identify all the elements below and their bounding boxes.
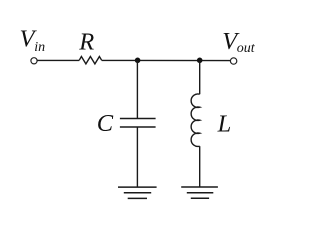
node junction at R/C — [135, 58, 141, 64]
svg-text:L: L — [217, 111, 232, 138]
svg-text:in: in — [34, 40, 45, 55]
wire — [102, 59, 231, 61]
terminal Vout — [230, 58, 236, 64]
label Vin — [20, 26, 46, 55]
wire — [199, 146, 201, 187]
svg-text:C: C — [97, 110, 114, 137]
ground under C — [118, 187, 157, 198]
capacitor C — [120, 119, 156, 128]
svg-text:out: out — [237, 41, 256, 56]
wire — [199, 60, 201, 94]
wire — [136, 127, 138, 187]
node junction at L — [197, 58, 203, 64]
inductor L — [191, 94, 200, 147]
terminal Vin — [31, 58, 37, 64]
resistor R — [79, 57, 102, 64]
label Vout — [222, 28, 256, 56]
svg-text:R: R — [78, 29, 94, 56]
wire — [37, 59, 79, 61]
ground under L — [181, 187, 218, 198]
wire — [136, 60, 138, 118]
